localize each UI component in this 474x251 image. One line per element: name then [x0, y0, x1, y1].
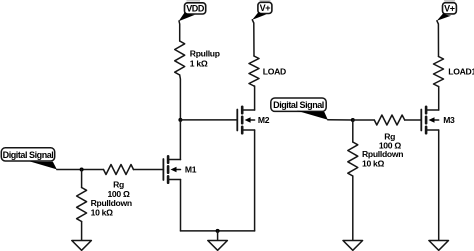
node ground junction dot [216, 229, 220, 233]
wire M2 drain up to LOAD [253, 86, 256, 110]
label Rpulldown 10 kOhm (left) [91, 198, 132, 218]
svg-text:1 kΩ: 1 kΩ [190, 58, 208, 68]
ground (under Rpulldown2) [343, 241, 363, 251]
resistor LOAD1 [434, 57, 444, 87]
cropped remnant above V+ left [260, 0, 271, 1]
resistor Rpullup [175, 41, 185, 75]
label Rpulldown 10 kOhm (right) [362, 149, 403, 168]
wire LOAD1 to V+ [437, 21, 439, 57]
wire Rg2 to M3 gate [405, 119, 422, 121]
wire ground bus [181, 230, 255, 232]
svg-text:M3: M3 [443, 115, 455, 125]
wire node B to Rpulldown [81, 170, 83, 188]
transistor M1 [163, 156, 180, 183]
net label Digital Signal (middle) [271, 98, 328, 120]
svg-text:V+: V+ [260, 3, 271, 13]
transistor M3 [421, 107, 438, 134]
wire Rpulldown to ground [81, 222, 83, 241]
wire M1 source down [180, 180, 182, 231]
wire node C to Rpulldown2 [352, 120, 354, 142]
ground (middle) [208, 241, 228, 251]
wire node A to M1 drain [179, 120, 181, 160]
wire LOAD to V+ [252, 20, 254, 56]
cropped remnant above V+ right [444, 0, 455, 2]
wire node B to Rg [57, 169, 104, 171]
label Rpullup 1 kOhm [190, 48, 220, 68]
wire ground stub [217, 231, 219, 240]
svg-text:Digital Signal: Digital Signal [3, 150, 54, 160]
node B junction dot [80, 168, 84, 172]
svg-text:VDD: VDD [186, 3, 205, 13]
svg-text:10 kΩ: 10 kΩ [362, 158, 385, 168]
wire VDD to Rpullup [178, 21, 181, 41]
svg-text:Rpullup: Rpullup [190, 48, 220, 58]
svg-text:LOAD: LOAD [263, 67, 286, 77]
wire node C to Rg2 [353, 119, 375, 121]
cropped remnant above VDD [187, 0, 201, 2]
transistor M2 [237, 107, 254, 134]
wire callout to node C [328, 119, 353, 121]
node C junction dot [351, 118, 355, 122]
svg-text:Digital Signal: Digital Signal [273, 100, 324, 110]
net label VDD [179, 3, 206, 21]
svg-text:10 kΩ: 10 kΩ [91, 208, 114, 218]
net label Digital Signal (left) [1, 148, 57, 170]
ground (right) [429, 241, 449, 251]
wire M3 source down [438, 130, 440, 240]
wire M1 gate from Rg [133, 169, 163, 171]
wire node A to M2 gate [180, 119, 237, 121]
resistor Rg (left) [104, 165, 134, 175]
wire M2 source down [254, 130, 256, 231]
svg-text:Rg: Rg [113, 180, 124, 190]
label Rg 100 Ohm (left) [107, 180, 130, 200]
resistor Rpulldown (left) [77, 188, 87, 222]
net label V+ (right) [437, 3, 457, 21]
resistor LOAD [249, 56, 259, 86]
svg-text:V+: V+ [444, 4, 455, 14]
wire M3 drain up to LOAD1 [438, 87, 440, 111]
resistor Rpulldown (right) [348, 142, 358, 176]
net label V+ (left) [252, 2, 272, 20]
wire Rpullup to node A [179, 75, 182, 120]
node A junction dot [178, 118, 182, 122]
label Rg 100 Ohm (right) [379, 132, 402, 151]
ground (left) [72, 241, 92, 251]
svg-text:M1: M1 [185, 165, 197, 175]
svg-text:M2: M2 [258, 115, 270, 125]
svg-text:Rpulldown: Rpulldown [91, 198, 132, 208]
svg-text:LOAD1: LOAD1 [448, 66, 474, 76]
resistor Rg (right) [374, 115, 404, 125]
wire Rpulldown2 to ground [352, 176, 354, 240]
